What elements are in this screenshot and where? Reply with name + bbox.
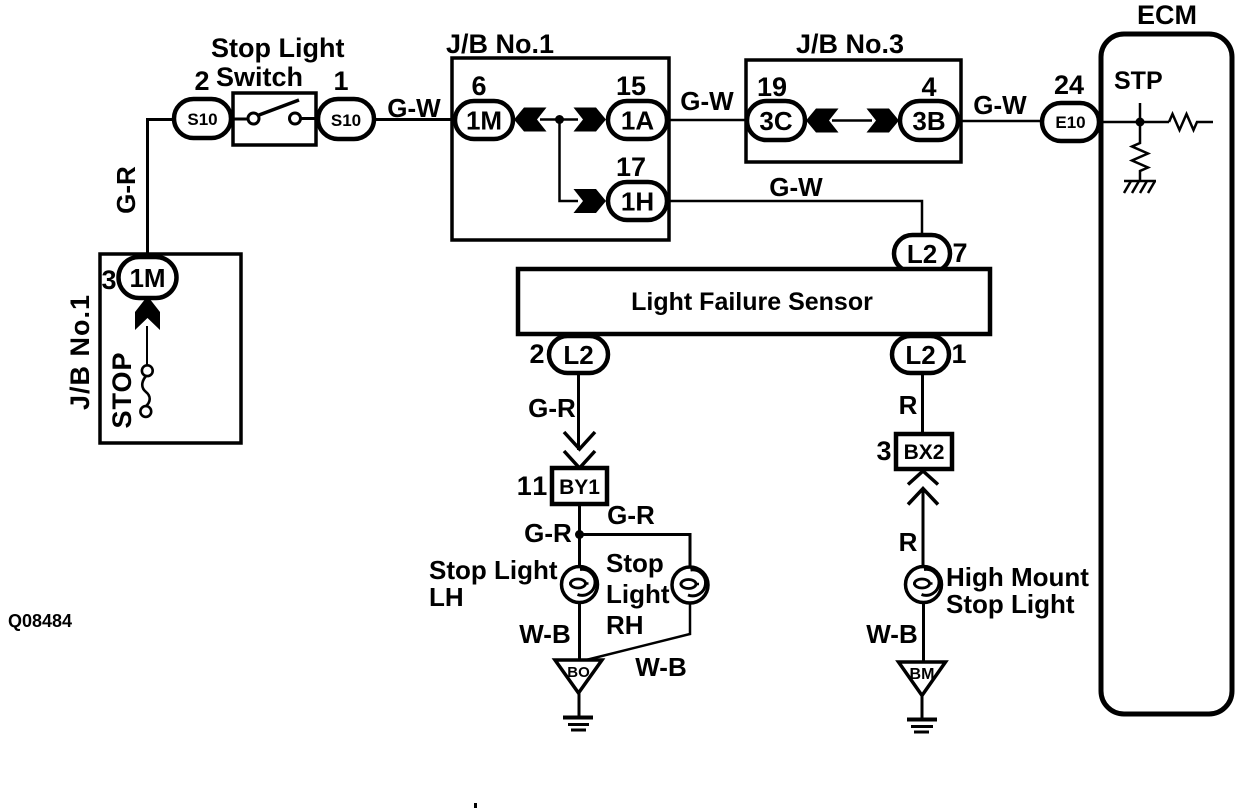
svg-text:High Mount: High Mount — [946, 562, 1089, 592]
svg-text:1M: 1M — [129, 263, 165, 293]
svg-text:1: 1 — [333, 66, 348, 96]
svg-text:L2: L2 — [905, 340, 935, 370]
J/B No.1 box — [452, 58, 669, 240]
connector L2 (pin 7) — [894, 235, 950, 272]
connector 1M (left) — [119, 257, 177, 298]
fuse STOP — [140, 365, 152, 417]
svg-text:Light: Light — [606, 579, 670, 609]
svg-text:J/B No.1: J/B No.1 — [65, 294, 95, 410]
Light Failure Sensor box — [518, 269, 990, 334]
svg-text:STOP: STOP — [107, 351, 137, 428]
svg-text:J/B No.3: J/B No.3 — [796, 29, 904, 59]
svg-text:1M: 1M — [466, 106, 502, 136]
svg-text:1H: 1H — [621, 187, 654, 217]
svg-text:L2: L2 — [907, 239, 937, 269]
chevron connector (up) 2 — [908, 489, 938, 505]
wire between arrows — [540, 118, 578, 121]
wire RH bulb to ground triangle (diagonal) — [584, 603, 690, 661]
wire BY1 down to LH bulb — [578, 504, 581, 568]
connector E10 — [1042, 103, 1099, 141]
wire S10 to J/B No.1 — [374, 118, 456, 121]
svg-text:W-B: W-B — [866, 619, 917, 649]
wire between arrows (J/B No.3) — [832, 119, 872, 122]
svg-text:S10: S10 — [331, 111, 361, 130]
svg-text:G-R: G-R — [528, 393, 576, 423]
svg-text:17: 17 — [616, 152, 646, 182]
ECM box — [1101, 34, 1232, 714]
wire junction down to 1H arrow — [560, 120, 579, 202]
svg-text:1: 1 — [951, 339, 966, 369]
wire triangle to ground — [578, 693, 581, 717]
svg-text:3: 3 — [876, 436, 891, 466]
svg-text:24: 24 — [1054, 70, 1084, 100]
svg-text:RH: RH — [606, 610, 644, 640]
svg-text:2: 2 — [529, 339, 544, 369]
svg-text:R: R — [899, 390, 918, 420]
svg-text:W-B: W-B — [635, 652, 686, 682]
arrow up (to 1M) — [135, 296, 160, 330]
wire from connector S10-2 left down to 1M (left J/B) — [148, 120, 175, 259]
wire 3B to E10 — [958, 120, 1043, 123]
svg-text:BY1: BY1 — [559, 476, 600, 499]
chevron connector (up) 1 — [908, 471, 938, 485]
svg-text:7: 7 — [952, 238, 967, 268]
J/B No.3 box — [746, 60, 961, 162]
svg-text:Stop Light: Stop Light — [946, 589, 1075, 619]
connector 3B — [900, 101, 958, 140]
wire triangle BM to ground — [921, 696, 924, 720]
ground triangle BO — [555, 660, 602, 693]
wire LH bulb to ground triangle — [578, 603, 581, 662]
connector 3C — [747, 101, 805, 140]
svg-text:4: 4 — [921, 72, 936, 102]
J/B No.1 left box — [100, 254, 241, 443]
svg-text:G-R: G-R — [607, 500, 655, 530]
node stub above junction — [1139, 103, 1142, 122]
chevron connector (down) 2 — [564, 451, 595, 468]
wire arrow to fuse — [146, 326, 148, 366]
svg-text:W-B: W-B — [519, 619, 570, 649]
connector BY1 — [552, 468, 607, 504]
svg-text:BO: BO — [567, 664, 590, 681]
svg-text:G-R: G-R — [111, 166, 141, 214]
connector 1H — [608, 182, 667, 220]
resistor (vertical, ECM) — [1132, 122, 1148, 180]
svg-text:G-W: G-W — [680, 86, 734, 116]
svg-text:G-R: G-R — [524, 518, 572, 548]
svg-text:L2: L2 — [563, 340, 593, 370]
svg-text:STP: STP — [1114, 67, 1163, 95]
svg-text:Q08484: Q08484 — [8, 611, 72, 631]
connector L2 (pin 1) — [892, 336, 949, 373]
bulb High Mount Stop Light — [906, 567, 942, 603]
svg-text:1A: 1A — [621, 106, 654, 136]
svg-text:3: 3 — [101, 265, 116, 295]
svg-text:11: 11 — [517, 471, 550, 501]
arrow left (to 3C) — [806, 109, 839, 133]
svg-text:BM: BM — [910, 666, 935, 683]
connector 1M — [455, 101, 513, 139]
bulb Stop Light RH — [672, 567, 708, 603]
wire L2-2 down — [577, 373, 580, 450]
svg-text:G-W: G-W — [769, 172, 823, 202]
arrow right (to 3B) — [867, 109, 900, 133]
wire L2-1 down to BX2 — [921, 373, 924, 434]
svg-text:ECM: ECM — [1137, 0, 1197, 30]
ground triangle BM — [899, 662, 946, 696]
connector L2 (pin 2) — [549, 336, 608, 373]
ground symbol (BO) — [563, 718, 593, 731]
junction dot (stop light branch) — [575, 530, 584, 539]
junction dot — [555, 115, 564, 124]
svg-text:S10: S10 — [187, 110, 217, 129]
svg-text:E10: E10 — [1055, 113, 1085, 132]
svg-text:19: 19 — [757, 72, 787, 102]
junction dot (ECM) — [1136, 118, 1145, 127]
wire E10 into ECM — [1099, 121, 1169, 124]
svg-text:R: R — [899, 527, 918, 557]
resistor (horizontal, ECM pull-up) — [1169, 114, 1213, 130]
arrow left (to 1M) — [514, 108, 547, 132]
svg-text:15: 15 — [616, 71, 646, 101]
connector S10 (pin 1) — [318, 99, 374, 139]
connector S10 (pin 2) — [174, 99, 231, 138]
chassis ground (ECM) — [1124, 181, 1156, 193]
svg-text:J/B No.1: J/B No.1 — [446, 29, 554, 59]
wire bulb to ground triangle BM — [922, 602, 925, 663]
connector BX2 — [896, 434, 952, 469]
wire to high mount bulb — [922, 490, 925, 567]
svg-text:3C: 3C — [759, 106, 792, 136]
wire 1A to 3C — [667, 119, 748, 122]
scan speck — [474, 803, 477, 808]
ground symbol (BM) — [907, 720, 937, 733]
chevron connector (down) 1 — [564, 432, 595, 449]
arrow right (to 1A) — [574, 108, 607, 132]
arrow right (to 1H) — [574, 189, 607, 213]
svg-text:BX2: BX2 — [904, 441, 945, 464]
svg-text:Stop: Stop — [606, 548, 664, 578]
wire branch to RH bulb — [580, 535, 691, 570]
svg-text:Stop Light: Stop Light — [429, 555, 558, 585]
svg-text:Light Failure Sensor: Light Failure Sensor — [631, 288, 873, 316]
svg-text:Stop Light: Stop Light — [211, 33, 344, 63]
wire 1H to L2 pin 7 — [667, 201, 922, 237]
svg-text:2: 2 — [194, 66, 209, 96]
svg-text:3B: 3B — [912, 106, 945, 136]
svg-text:Switch: Switch — [216, 62, 303, 92]
bulb Stop Light LH — [562, 567, 598, 603]
connector 1A — [608, 101, 667, 139]
svg-text:G-W: G-W — [973, 90, 1027, 120]
svg-text:G-W: G-W — [387, 93, 441, 123]
svg-text:LH: LH — [429, 582, 464, 612]
svg-text:6: 6 — [471, 71, 486, 101]
stop light switch box — [231, 93, 318, 145]
